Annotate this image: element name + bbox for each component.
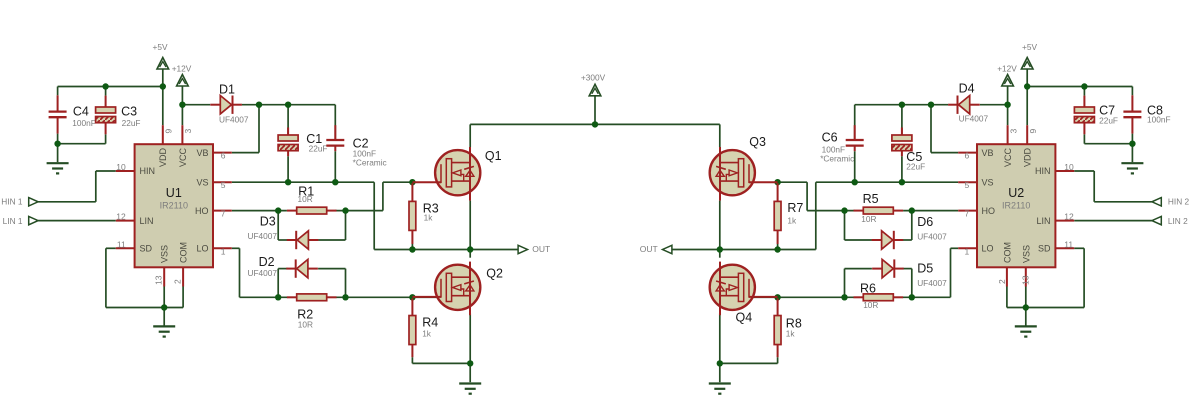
transistor Q2 — [413, 262, 481, 316]
svg-text:R7: R7 — [787, 201, 803, 215]
resistor R3 — [409, 183, 416, 244]
svg-text:12: 12 — [116, 212, 126, 222]
wire VS net (right) — [816, 151, 958, 249]
svg-text:Q3: Q3 — [749, 135, 766, 149]
wire gate Q1 net (left) — [318, 179, 415, 240]
transistor Q3 — [710, 147, 778, 201]
diode D2 labels — [248, 255, 278, 278]
wire HO net (right) — [903, 207, 959, 240]
diode D6 — [872, 231, 904, 249]
svg-text:HIN: HIN — [1035, 166, 1051, 176]
svg-text:UF4007: UF4007 — [959, 114, 989, 124]
svg-text:10R: 10R — [298, 320, 313, 330]
svg-text:+12V: +12V — [997, 64, 1017, 74]
svg-text:LIN 2: LIN 2 — [1168, 216, 1188, 226]
resistor R7 — [774, 183, 781, 244]
capacitor C3 — [96, 96, 116, 135]
svg-text:HO: HO — [195, 206, 209, 216]
wire LIN2 input net (right) — [1074, 220, 1152, 222]
svg-text:22uF: 22uF — [1099, 116, 1118, 126]
diode D3 — [287, 231, 319, 249]
ground (U1 VSS) — [153, 326, 175, 336]
resistor R4 — [409, 298, 416, 357]
svg-text:SD: SD — [140, 244, 153, 254]
U1 ref labels — [160, 186, 188, 211]
svg-text:D5: D5 — [917, 262, 933, 276]
ground (Q4 source) — [709, 384, 731, 394]
node OUT (left) — [518, 244, 550, 254]
svg-text:+12V: +12V — [172, 64, 192, 74]
svg-text:22uF: 22uF — [906, 161, 925, 171]
wire +5V net (top-left) (left) — [58, 69, 166, 125]
svg-text:D6: D6 — [917, 215, 933, 229]
svg-text:3: 3 — [183, 129, 193, 134]
transistor Q1 — [413, 147, 481, 201]
diode D4 — [948, 96, 980, 114]
svg-text:*Ceramic: *Ceramic — [820, 153, 854, 163]
svg-text:OUT: OUT — [532, 244, 550, 254]
svg-text:C6: C6 — [822, 131, 838, 145]
svg-text:OUT: OUT — [640, 244, 658, 254]
svg-text:2: 2 — [997, 279, 1007, 284]
capacitor C1 labels — [306, 132, 327, 153]
wire C4/C3 ground net (right) — [1084, 134, 1135, 163]
wire +12V net (left) — [179, 86, 210, 125]
capacitor C7 — [1074, 96, 1094, 135]
resistor R8 labels — [786, 317, 802, 339]
diode D1 labels — [219, 82, 249, 124]
wire VB bootstrap net (left) — [232, 102, 335, 153]
diode D5 — [872, 259, 904, 277]
power +5V symbol (right) — [1021, 42, 1037, 69]
svg-text:22uF: 22uF — [122, 118, 141, 128]
svg-text:9: 9 — [1028, 129, 1038, 134]
capacitor C6 — [846, 125, 864, 151]
svg-text:12: 12 — [1064, 212, 1074, 222]
wire Q2 source ground net (right) — [717, 314, 778, 383]
wire OUT net (left) — [374, 201, 517, 258]
svg-text:R5: R5 — [863, 192, 879, 206]
svg-text:D1: D1 — [219, 82, 235, 96]
svg-text:VDD: VDD — [1023, 147, 1033, 167]
svg-text:1k: 1k — [422, 328, 432, 338]
wire D2 left corner net (right) — [903, 269, 916, 301]
svg-text:LO: LO — [196, 244, 208, 254]
resistor R6 — [854, 294, 904, 301]
svg-text:VB: VB — [196, 148, 208, 158]
op-amp U2 (IR2110 driver IC) — [958, 125, 1074, 286]
svg-text:UF4007: UF4007 — [219, 114, 249, 124]
wire OUT net (right) — [672, 201, 815, 258]
svg-text:7: 7 — [964, 209, 969, 219]
svg-text:VCC: VCC — [178, 147, 188, 167]
U2 pin number labels — [964, 129, 1074, 286]
capacitor C8 labels — [1147, 103, 1171, 124]
U2 ref labels — [1002, 186, 1030, 211]
svg-text:1k: 1k — [786, 328, 796, 338]
U2 pin name labels — [982, 147, 1051, 263]
transistor Q3 label — [749, 135, 766, 149]
wire HIN input net (left) — [38, 171, 116, 202]
capacitor C7 labels — [1099, 103, 1118, 125]
svg-text:VS: VS — [196, 177, 208, 187]
svg-text:10R: 10R — [863, 300, 878, 310]
svg-text:+5V: +5V — [1022, 42, 1037, 52]
op-amp U1 (IR2110 driver IC) — [116, 125, 232, 286]
wire VB bootstrap net (right) — [855, 102, 959, 153]
svg-text:Q2: Q2 — [486, 267, 503, 281]
capacitor C4 — [49, 95, 67, 133]
node LIN 2 — [1152, 216, 1188, 226]
power +12V symbol (right) — [997, 64, 1017, 86]
U1 pin name labels — [140, 147, 209, 263]
svg-text:6: 6 — [221, 151, 226, 161]
svg-text:VCC: VCC — [1003, 147, 1013, 167]
diode D6 labels — [917, 215, 947, 241]
svg-text:11: 11 — [1064, 239, 1073, 249]
svg-text:22uF: 22uF — [309, 143, 328, 153]
svg-text:UF4007: UF4007 — [917, 231, 947, 241]
diode D3 labels — [248, 215, 278, 241]
ground (Q2 source) — [459, 384, 481, 394]
svg-text:UF4007: UF4007 — [917, 278, 947, 288]
svg-text:10: 10 — [1064, 162, 1074, 172]
wire HO net (left) — [232, 207, 288, 240]
power +5V symbol (left) — [153, 42, 169, 69]
svg-text:VSS: VSS — [160, 245, 170, 263]
svg-text:1: 1 — [221, 246, 226, 256]
svg-text:VSS: VSS — [1021, 245, 1031, 263]
svg-text:C3: C3 — [121, 105, 137, 119]
svg-text:100nF: 100nF — [1147, 115, 1171, 125]
capacitor C6 labels — [820, 131, 854, 164]
svg-text:IR2110: IR2110 — [1002, 201, 1030, 211]
resistor R2 — [287, 294, 337, 301]
resistor R3 labels — [423, 201, 439, 222]
wire Q2 source ground net (left) — [412, 314, 473, 383]
svg-text:10R: 10R — [861, 214, 876, 224]
power +300V symbol — [581, 72, 606, 96]
svg-text:13: 13 — [154, 275, 164, 285]
node HIN 1 — [1, 196, 38, 206]
wire +12V net (right) — [980, 86, 1011, 125]
svg-text:U1: U1 — [166, 186, 182, 200]
wire LIN input net (left) — [38, 220, 116, 222]
wire LO net (left) — [232, 248, 288, 297]
svg-text:9: 9 — [164, 129, 174, 134]
diode D5 labels — [917, 262, 947, 288]
diode D4 labels — [959, 82, 989, 124]
power +12V symbol (left) — [172, 64, 192, 86]
svg-text:10R: 10R — [298, 194, 313, 204]
svg-text:LIN: LIN — [1036, 216, 1050, 226]
diode D1 — [210, 96, 242, 114]
svg-text:U2: U2 — [1008, 186, 1024, 200]
resistor R1 — [287, 207, 337, 214]
svg-text:COM: COM — [1002, 242, 1012, 263]
ground (C7/C8) — [1121, 163, 1143, 173]
svg-text:VS: VS — [982, 177, 994, 187]
svg-text:LIN: LIN — [140, 216, 154, 226]
transistor Q4 — [710, 262, 778, 316]
svg-text:COM: COM — [179, 242, 189, 263]
wire VS net (left) — [232, 151, 374, 249]
svg-text:Q1: Q1 — [485, 149, 502, 163]
svg-text:UF4007: UF4007 — [248, 268, 278, 278]
svg-text:HIN 1: HIN 1 — [1, 196, 23, 206]
svg-text:Q4: Q4 — [736, 310, 753, 324]
transistor Q4 label — [736, 310, 753, 324]
capacitor C5 — [892, 128, 912, 157]
svg-text:UF4007: UF4007 — [248, 231, 278, 241]
resistor R2 labels — [297, 307, 313, 329]
svg-text:D4: D4 — [959, 82, 975, 96]
ground (U2 VSS) — [1015, 326, 1037, 336]
svg-text:1k: 1k — [424, 212, 434, 222]
svg-text:5: 5 — [221, 180, 226, 190]
svg-text:*Ceramic: *Ceramic — [353, 157, 387, 167]
svg-text:LO: LO — [982, 244, 994, 254]
svg-text:D3: D3 — [260, 215, 276, 229]
resistor R5 labels — [861, 192, 878, 224]
svg-text:VDD: VDD — [158, 147, 168, 167]
diode D2 — [286, 259, 318, 277]
wire +5V net (top-right) (right) — [1024, 69, 1132, 125]
capacitor C2 labels — [353, 137, 387, 168]
resistor R8 — [774, 298, 781, 357]
svg-text:C4: C4 — [73, 105, 89, 119]
wire LO net (right) — [903, 248, 959, 297]
svg-text:R6: R6 — [860, 282, 876, 296]
wire SD/VSS/COM ground net (left) — [106, 248, 183, 326]
U1 pin number labels — [116, 129, 226, 286]
svg-text:5: 5 — [964, 180, 969, 190]
svg-text:1k: 1k — [787, 215, 797, 225]
wire gate Q2 net (left) — [318, 269, 445, 301]
svg-text:HIN: HIN — [140, 166, 156, 176]
wire C4/C3 ground net (left) — [54, 134, 105, 163]
node HIN 2 — [1152, 196, 1190, 206]
resistor R7 labels — [787, 201, 803, 226]
svg-text:3: 3 — [1008, 129, 1018, 134]
svg-text:2: 2 — [172, 279, 182, 284]
svg-text:HO: HO — [982, 206, 996, 216]
svg-text:10: 10 — [116, 162, 126, 172]
svg-text:11: 11 — [117, 239, 126, 249]
transistor Q2 label — [486, 267, 503, 281]
svg-text:IR2110: IR2110 — [160, 201, 188, 211]
capacitor C4 labels — [72, 105, 96, 128]
svg-text:D2: D2 — [259, 255, 275, 269]
resistor R4 labels — [422, 316, 438, 339]
capacitor C5 labels — [906, 150, 925, 171]
wire SD/VSS/COM ground net (right) — [1007, 248, 1084, 326]
svg-text:1: 1 — [964, 246, 969, 256]
wire HIN2 input net (right) — [1074, 171, 1152, 202]
resistor R1 labels — [298, 184, 315, 204]
svg-text:LIN 1: LIN 1 — [3, 216, 23, 226]
node LIN 1 — [3, 216, 38, 226]
svg-text:+300V: +300V — [581, 72, 606, 82]
node OUT (right) — [640, 244, 672, 254]
svg-text:HIN 2: HIN 2 — [1168, 196, 1190, 206]
svg-text:VB: VB — [982, 148, 994, 158]
capacitor C8 — [1123, 95, 1141, 133]
svg-text:13: 13 — [1020, 275, 1030, 285]
resistor R5 — [854, 207, 904, 214]
capacitor C3 labels — [121, 105, 140, 128]
ground (C4/C3) — [47, 163, 69, 173]
wire D2 left corner net (left) — [275, 269, 288, 301]
svg-text:6: 6 — [964, 151, 969, 161]
wire +300V rail — [470, 96, 720, 147]
svg-text:SD: SD — [1038, 244, 1051, 254]
resistor R6 labels — [860, 282, 878, 311]
wire gate Q1 net (right) — [774, 179, 872, 240]
svg-text:7: 7 — [221, 209, 226, 219]
capacitor C2 — [326, 125, 344, 151]
transistor Q1 label — [485, 149, 502, 163]
capacitor C1 — [278, 128, 298, 157]
svg-text:100nF: 100nF — [72, 118, 96, 128]
svg-text:+5V: +5V — [153, 42, 168, 52]
wire gate Q2 net (right) — [745, 269, 872, 301]
